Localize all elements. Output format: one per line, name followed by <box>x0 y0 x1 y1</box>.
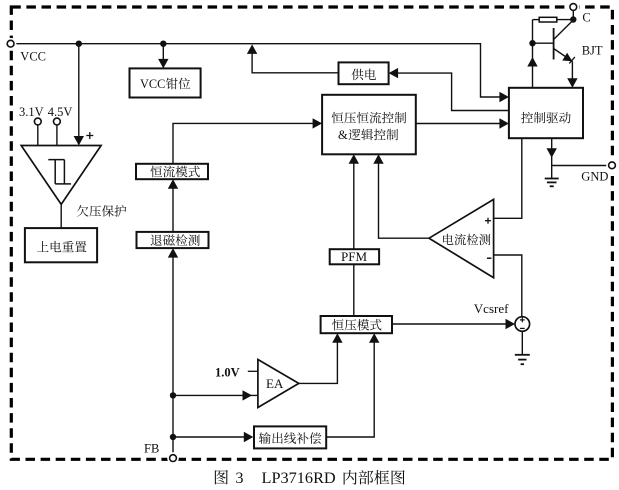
block 控制驱动 <box>509 88 583 138</box>
terminal VCC <box>5 38 17 50</box>
wire PFM to CV-mode <box>353 264 355 316</box>
wire C stem <box>572 10 574 19</box>
wire FB line <box>172 256 174 455</box>
caption 图 3 LP3716RD 内部框图 <box>215 470 228 484</box>
label + input <box>86 135 93 137</box>
block 恒压模式 <box>321 316 392 333</box>
svg-text:EA: EA <box>266 376 284 391</box>
resistor R1 <box>533 19 540 21</box>
wire emitter to drive <box>571 61 573 79</box>
wire control to drive <box>416 123 500 125</box>
label 电流检测 <box>443 234 490 246</box>
source Vcsref <box>515 317 530 332</box>
wire compensation to CV-mode <box>326 342 374 437</box>
wire R to base <box>533 20 554 44</box>
wire VCC rail <box>14 44 501 97</box>
svg-text:3.1V: 3.1V <box>19 105 44 119</box>
terminal FB <box>167 452 179 464</box>
wire base drive <box>532 43 534 88</box>
svg-text:Vcsref: Vcsref <box>474 301 509 316</box>
label 退磁检测 <box>151 234 200 246</box>
svg-text:&: & <box>338 128 348 142</box>
wire EA to CV-mode <box>299 342 338 383</box>
op-amp EA <box>258 360 299 408</box>
svg-text:LP3716RD: LP3716RD <box>262 468 336 487</box>
wire drive to supply <box>398 73 509 110</box>
wire FB to compensation <box>173 436 245 438</box>
svg-text:1.0V: 1.0V <box>215 366 240 380</box>
wire drive to GND <box>552 138 609 165</box>
node junction VCC-UVLO <box>76 41 82 47</box>
block 恒压恒流控制&逻辑控制 <box>322 95 416 155</box>
svg-text:C: C <box>582 10 590 24</box>
svg-text:PFM: PFM <box>341 249 367 264</box>
hysteresis symbol <box>48 159 64 161</box>
node junction base <box>529 40 535 46</box>
node junction VCC-clamp <box>160 41 166 47</box>
label 恒流模式 <box>151 166 200 178</box>
label 供电 <box>352 69 376 81</box>
label - input CS <box>487 257 492 259</box>
svg-text:FB: FB <box>144 442 159 456</box>
label + input CS <box>485 220 491 222</box>
wire CV-mode to Vcsref <box>392 323 507 325</box>
block 供电 <box>339 62 389 84</box>
block 退磁检测 <box>137 232 209 248</box>
label 控制驱动 <box>521 112 571 124</box>
wire CC-mode to control <box>173 123 313 163</box>
svg-text:4.5V: 4.5V <box>48 105 73 119</box>
node junction R-C <box>570 16 576 22</box>
wire CS- to Vcsref <box>494 255 522 317</box>
wire supply to VCC rail <box>252 52 338 73</box>
wire UVLO to reset <box>60 204 62 228</box>
node junction FB-EA <box>170 392 176 398</box>
wire 1.0V to EA <box>248 370 258 372</box>
wire PFM to control <box>353 163 355 249</box>
ground GND <box>551 166 553 179</box>
label 恒压恒流控制 <box>332 112 406 124</box>
terminal GND <box>606 160 618 172</box>
svg-text:VCC: VCC <box>140 77 165 91</box>
wire FB to EA <box>173 394 258 396</box>
label 上电重置 <box>37 241 86 252</box>
wire VCC to clamp <box>162 44 164 60</box>
block PFM <box>330 249 379 264</box>
terminal 3.1V <box>34 118 41 125</box>
label 欠压保护 <box>77 205 126 217</box>
wire drive to CS+ <box>494 138 522 218</box>
wire CS output to control <box>379 163 430 238</box>
wire demag to CC-mode <box>172 188 174 232</box>
svg-text:GND: GND <box>581 170 608 184</box>
svg-text:BJT: BJT <box>582 44 603 58</box>
block VCC clamp <box>130 68 201 97</box>
wire VCC to UVLO <box>78 44 80 137</box>
terminal 4.5V <box>54 118 61 125</box>
block 输出线补偿 <box>254 426 326 448</box>
svg-text:VCC: VCC <box>20 50 46 64</box>
block 上电重置 <box>25 228 97 262</box>
label 恒压模式 <box>332 319 381 331</box>
label 输出线补偿 <box>259 432 321 444</box>
comparator U1 欠压保护 <box>21 146 101 205</box>
transistor Q1 BJT <box>553 28 555 60</box>
node junction FB-comp <box>170 434 176 440</box>
ground Vcsref <box>521 331 523 355</box>
block 恒流模式 <box>136 164 208 179</box>
terminal C <box>568 1 580 13</box>
svg-text:3: 3 <box>235 468 243 487</box>
comparator U2 电流检测 <box>429 199 494 277</box>
